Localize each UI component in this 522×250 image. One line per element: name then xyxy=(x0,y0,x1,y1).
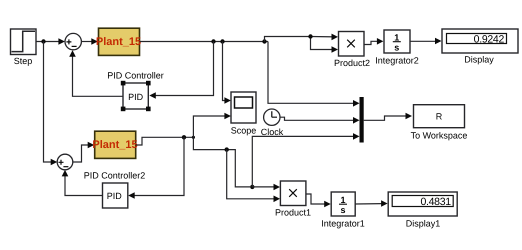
to-workspace sink W1 xyxy=(411,105,468,141)
sum junction U2 xyxy=(57,154,73,170)
wire mux to workspace xyxy=(364,113,412,121)
svg-text:1: 1 xyxy=(340,195,345,205)
svg-text:Integrator1: Integrator1 xyxy=(321,219,365,229)
PID block C2 xyxy=(103,183,128,208)
PID block C1 (selected) xyxy=(121,81,151,111)
wire PID2 out to sum2 minus xyxy=(62,170,103,196)
product block M1 xyxy=(275,181,311,218)
svg-text:Plant_15: Plant_15 xyxy=(96,36,141,48)
wire to mux input1 xyxy=(268,42,360,107)
wire feedback to PID2 xyxy=(128,137,184,199)
svg-text:Scope: Scope xyxy=(231,126,257,136)
scope block SC xyxy=(231,92,257,136)
display sink D1 xyxy=(442,29,518,65)
wire step to sum1 with junction xyxy=(36,38,65,45)
svg-text:Integrator2: Integrator2 xyxy=(375,56,419,66)
svg-text:0.9242: 0.9242 xyxy=(474,33,505,45)
svg-text:PID: PID xyxy=(107,191,123,201)
wire integrator1 to display1 xyxy=(355,200,387,207)
wire to product1 top input xyxy=(252,184,280,191)
wire to product2 inputs xyxy=(265,34,339,53)
plant block P1 xyxy=(96,28,141,55)
integrator block I2 xyxy=(375,30,419,66)
sum junction U1 xyxy=(65,33,81,49)
wire product1 to integrator1 xyxy=(306,194,331,207)
svg-text:PID Controller2: PID Controller2 xyxy=(84,171,146,181)
svg-text:Display: Display xyxy=(464,55,494,65)
svg-text:Display1: Display1 xyxy=(406,219,441,229)
wire branch to scope input2 xyxy=(193,113,231,138)
wire up to mux input3 xyxy=(252,133,359,187)
wire integrator2 to display xyxy=(410,38,442,45)
display sink D2 xyxy=(388,192,457,229)
wire branch down staircase xyxy=(193,137,254,189)
svg-text:To Workspace: To Workspace xyxy=(411,131,468,141)
svg-text:s: s xyxy=(394,43,399,53)
wire to product1 bottom input xyxy=(227,150,280,203)
wire sum2 to plant2 xyxy=(73,142,94,162)
product block M2 xyxy=(334,32,370,69)
svg-text:Plant_15: Plant_15 xyxy=(92,139,137,151)
wire plant2 output main xyxy=(136,135,195,145)
wire to scope input1 xyxy=(223,42,231,104)
wire clock to mux input2 xyxy=(280,117,360,124)
clock block CK xyxy=(261,109,284,137)
wire product2 to integrator2 xyxy=(364,38,383,45)
wire sum1 to plant1 xyxy=(81,38,97,45)
svg-text:Product1: Product1 xyxy=(275,208,311,218)
wire junction down to sum2 xyxy=(44,42,58,166)
step source S1 xyxy=(11,29,37,66)
integrator block I1 xyxy=(321,192,365,229)
svg-text:0.4831: 0.4831 xyxy=(420,196,451,208)
wire feedback to PID1 xyxy=(149,42,213,99)
main top wire plant1 output xyxy=(140,39,269,43)
svg-text:1: 1 xyxy=(394,32,399,42)
plant block P2 xyxy=(92,131,137,158)
svg-text:R: R xyxy=(436,112,443,122)
svg-text:s: s xyxy=(340,205,345,215)
svg-text:PID Controller: PID Controller xyxy=(107,71,164,81)
svg-text:PID: PID xyxy=(128,92,144,102)
svg-text:Clock: Clock xyxy=(261,127,284,137)
wire PID1 out to sum1 minus xyxy=(69,50,123,96)
mux MX xyxy=(360,97,364,143)
svg-text:Product2: Product2 xyxy=(334,58,370,68)
svg-text:Step: Step xyxy=(14,56,33,66)
